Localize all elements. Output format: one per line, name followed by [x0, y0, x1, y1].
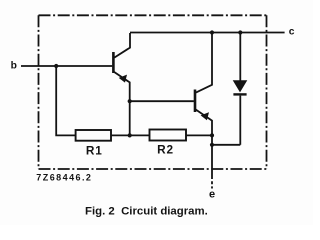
transistor Q2 emitter arrow (PNP, points to base bar) — [201, 112, 209, 120]
svg-text:R2: R2 — [157, 143, 174, 157]
node: junction dot Q2 collector on c rail — [210, 30, 214, 34]
diode D1 cathode bar — [233, 93, 246, 95]
svg-text:R1: R1 — [86, 143, 103, 157]
wire: collector rail to terminal c — [130, 32, 285, 34]
svg-text:Fig. 2 Circuit diagram.: Fig. 2 Circuit diagram. — [85, 206, 208, 218]
wire: R1 right to R2 left — [111, 134, 150, 136]
diode D1 triangle — [234, 81, 247, 92]
package outline right side — [266, 15, 268, 169]
package outline bottom side — [39, 168, 267, 170]
node: junction dot on b wire — [54, 64, 58, 68]
transistor Q1 emitter arrow (PNP, points to base bar) — [119, 75, 127, 83]
package outline left side — [38, 15, 40, 169]
transistor Q1 collector (diagonal + vertical to c line) — [114, 33, 130, 58]
transistor Q2 emitter (diagonal + vertical down) — [196, 109, 213, 176]
wire: base lead b to T1 base — [21, 65, 112, 67]
node: junction dot diode wire / e line — [210, 143, 214, 147]
wire: b node down to R1 left — [56, 66, 75, 135]
wire: R2 right to e line — [186, 134, 212, 136]
transistor Q2 base bar — [194, 90, 197, 113]
node: junction dot Q1 emitter / Q2 base — [128, 99, 132, 103]
diode D1 anode lead from c rail — [239, 33, 241, 82]
resistor R1 body — [76, 130, 111, 141]
node: junction dot diode on c rail — [238, 30, 242, 34]
resistor R2 body — [150, 130, 187, 141]
transistor Q2 collector (diagonal + vertical to c line) — [196, 33, 212, 93]
wire: Q1 emitter to Q2 base — [130, 100, 194, 102]
svg-text:e: e — [209, 188, 215, 200]
svg-text:7Z68446.2: 7Z68446.2 — [36, 172, 92, 182]
diode D1 cathode lead down — [239, 96, 241, 145]
transistor Q1 base bar — [112, 52, 115, 73]
wire: emitter lead tail to terminal e (faded dashes) — [211, 176, 213, 189]
transistor Q1 emitter (diagonal + vertical down) — [114, 72, 130, 136]
wire: diode cathode to e line — [212, 144, 240, 146]
node: junction dot R1-R2 / Q1 emitter — [128, 133, 132, 137]
package outline (dash-dot border) top side — [39, 14, 267, 16]
node: junction dot R2 / e line — [210, 133, 214, 137]
svg-text:c: c — [289, 27, 295, 38]
svg-text:b: b — [11, 61, 17, 72]
